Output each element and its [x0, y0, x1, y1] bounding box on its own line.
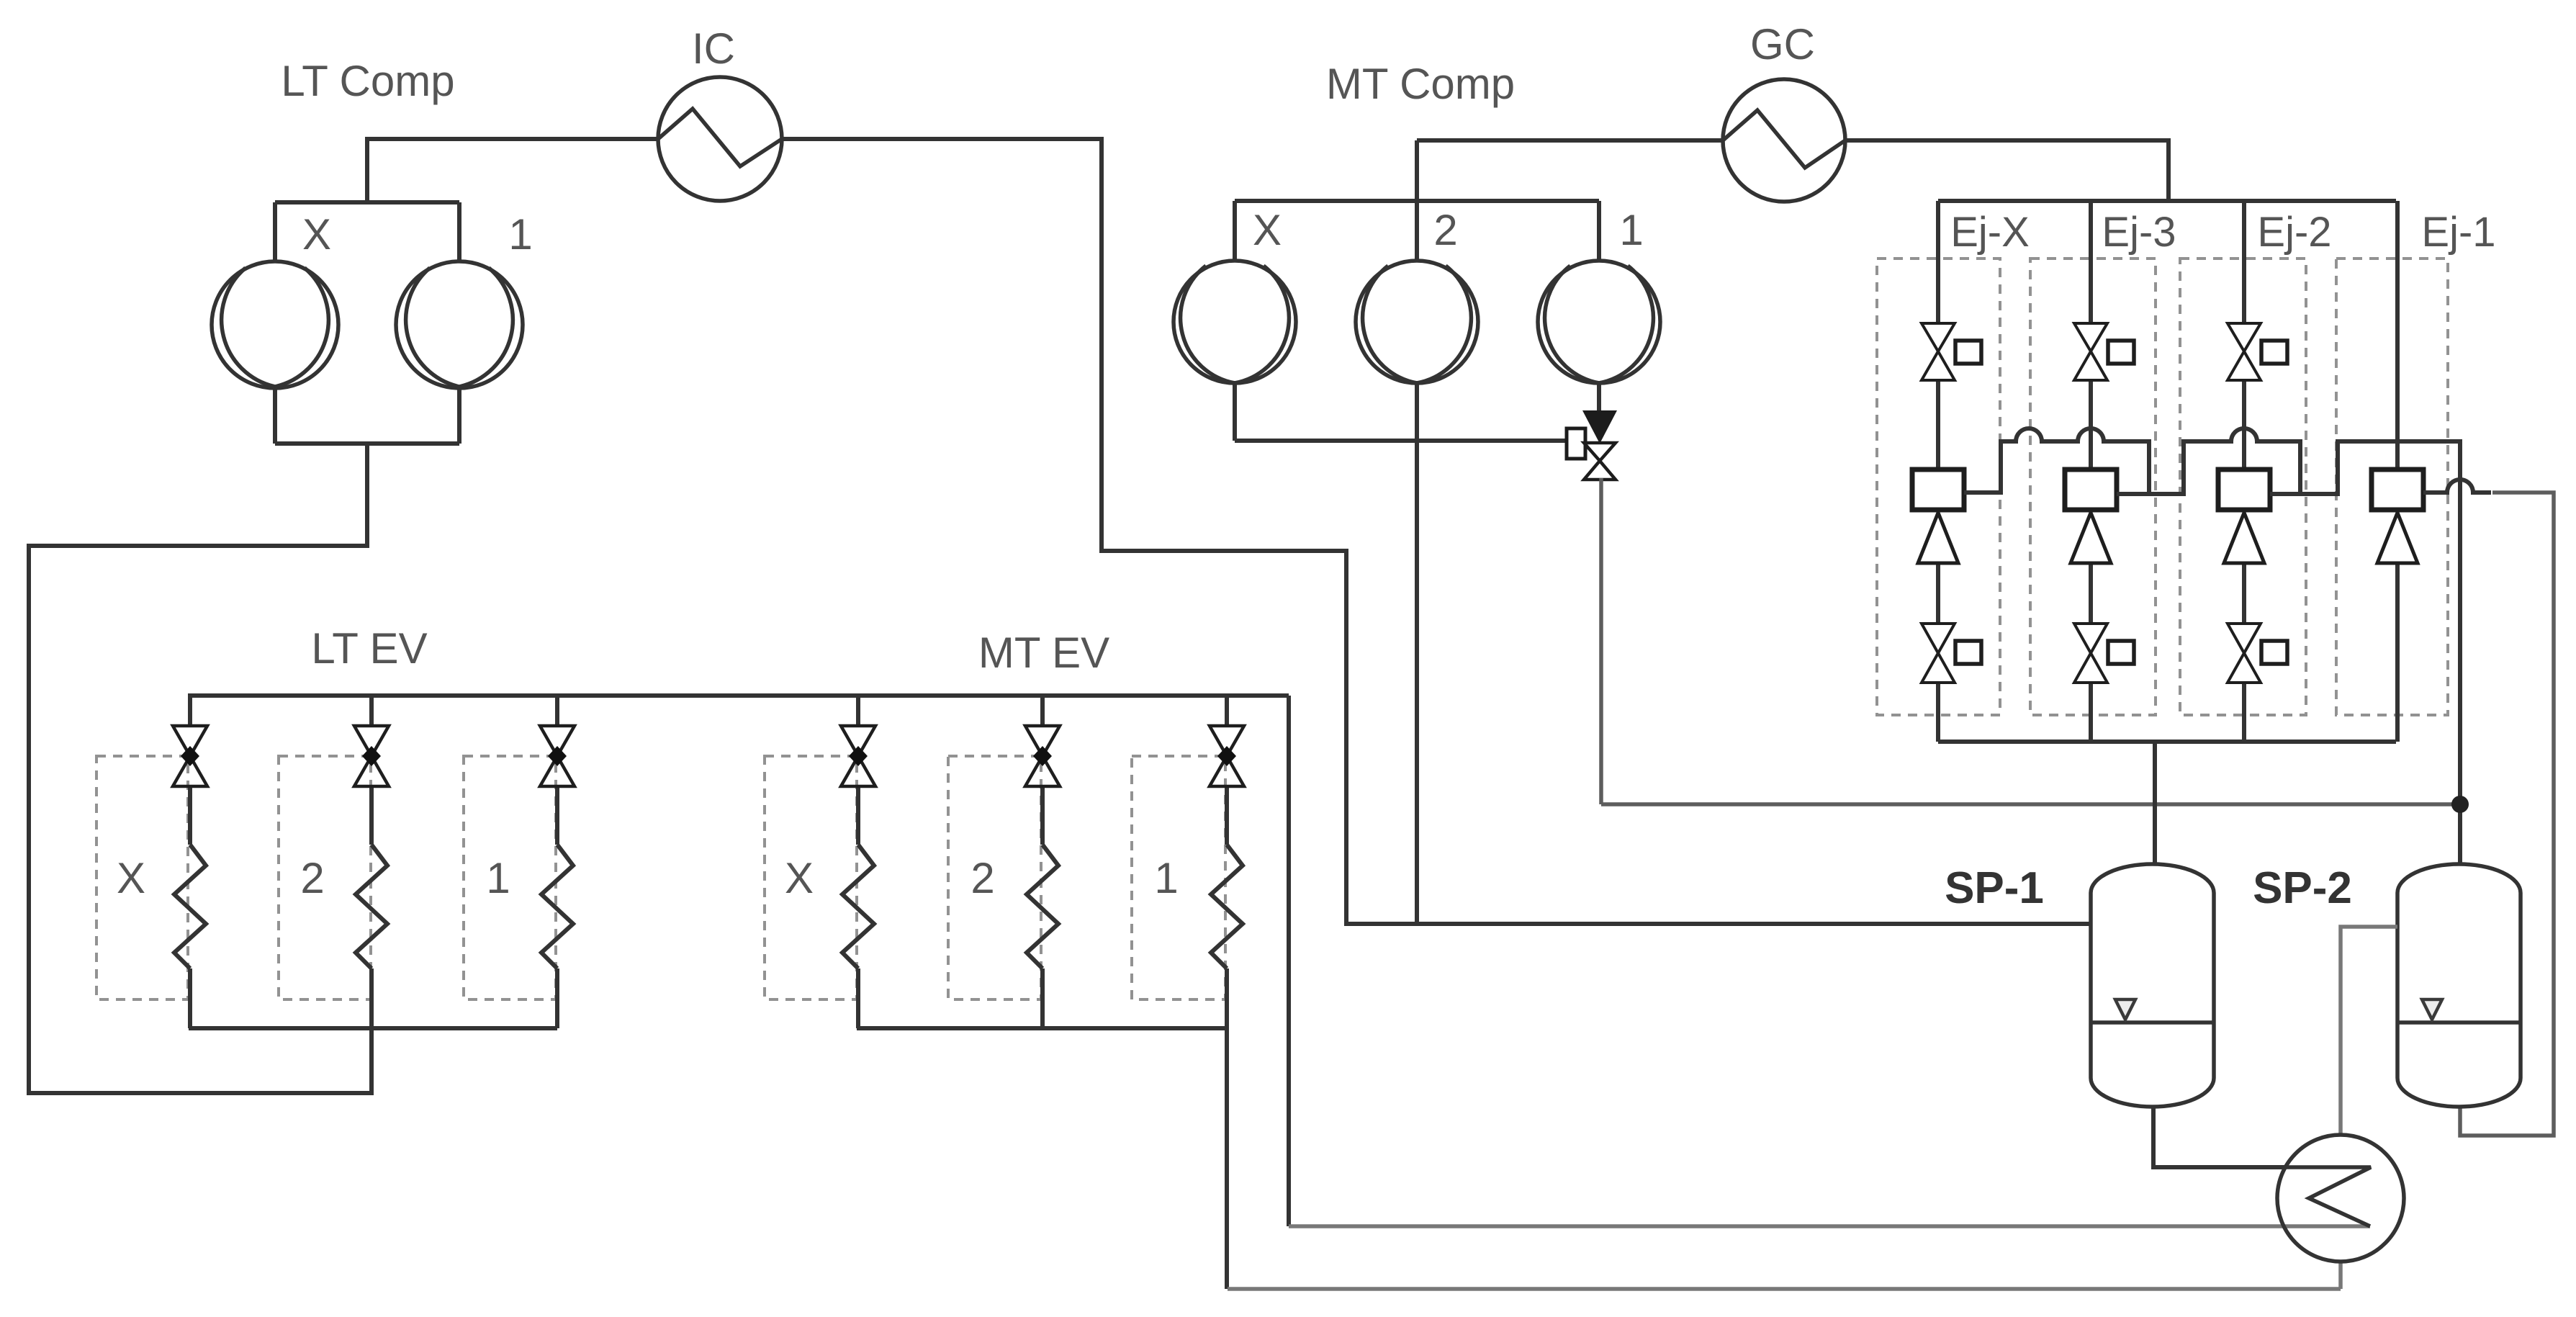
svg-text:MT EV: MT EV — [978, 629, 1109, 677]
svg-text:LT Comp: LT Comp — [281, 57, 454, 105]
svg-text:GC: GC — [1750, 20, 1815, 68]
svg-text:2: 2 — [1433, 206, 1457, 254]
svg-text:Ej-2: Ej-2 — [2257, 209, 2331, 256]
svg-text:X: X — [117, 854, 145, 902]
svg-text:Ej-X: Ej-X — [1950, 209, 2030, 256]
svg-text:IC: IC — [692, 24, 735, 73]
svg-text:1: 1 — [486, 854, 510, 902]
svg-text:X: X — [1253, 206, 1282, 254]
svg-text:SP-1: SP-1 — [1945, 863, 2044, 913]
svg-text:MT Comp: MT Comp — [1326, 60, 1515, 108]
svg-text:1: 1 — [1619, 206, 1643, 254]
svg-text:1: 1 — [1154, 854, 1178, 902]
svg-text:2: 2 — [300, 854, 324, 902]
svg-text:Ej-3: Ej-3 — [2102, 209, 2176, 256]
svg-text:2: 2 — [970, 854, 994, 902]
svg-text:Ej-1: Ej-1 — [2421, 209, 2495, 256]
svg-text:X: X — [785, 854, 814, 902]
svg-text:LT EV: LT EV — [311, 624, 427, 673]
svg-text:1: 1 — [508, 210, 532, 259]
svg-text:SP-2: SP-2 — [2253, 863, 2352, 913]
svg-text:X: X — [302, 210, 331, 259]
